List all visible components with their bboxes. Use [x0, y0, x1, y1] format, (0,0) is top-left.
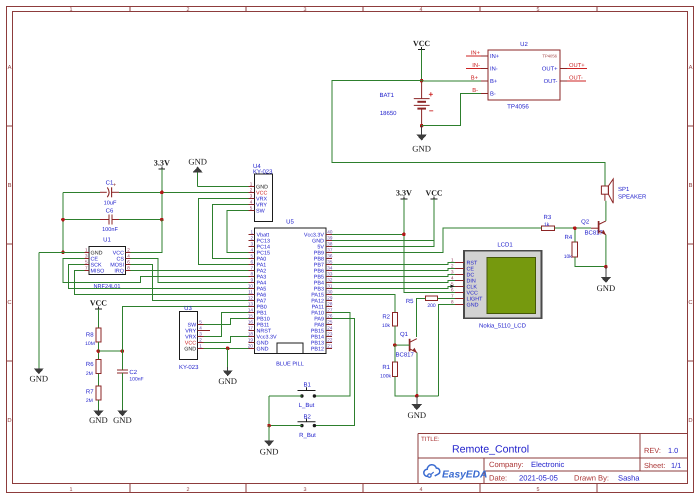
resistor R5 [406, 296, 438, 309]
svg-text:10k: 10k [564, 254, 573, 260]
svg-text:1k: 1k [544, 222, 550, 228]
resistor R7 [86, 386, 101, 404]
svg-text:IN-: IN- [490, 67, 498, 73]
svg-text:31: 31 [327, 284, 333, 289]
svg-text:100nF: 100nF [129, 377, 143, 383]
svg-text:Electronic: Electronic [531, 460, 565, 469]
title block [418, 434, 688, 484]
svg-text:20: 20 [248, 344, 254, 349]
svg-text:U1: U1 [103, 237, 111, 244]
GND (Q1) [407, 396, 426, 420]
svg-text:6: 6 [250, 260, 253, 265]
junction C2 top [121, 349, 125, 353]
wire CE to PA3 [63, 258, 248, 282]
svg-text:16: 16 [248, 320, 254, 325]
svg-text:GND: GND [412, 143, 431, 153]
svg-text:C: C [7, 299, 11, 306]
svg-text:21: 21 [327, 344, 333, 349]
svg-text:28: 28 [327, 302, 333, 307]
svg-text:23: 23 [327, 332, 333, 337]
svg-text:R8: R8 [86, 331, 94, 338]
svg-text:36: 36 [327, 254, 333, 259]
junction VCC node [420, 79, 424, 83]
wire VCC to speaker [332, 81, 605, 186]
svg-text:KY-023: KY-023 [253, 169, 273, 176]
svg-text:SW: SW [256, 208, 266, 214]
wire U3 VRX to PB1 [204, 312, 249, 336]
svg-text:B2: B2 [304, 413, 312, 420]
svg-text:2: 2 [187, 487, 190, 493]
3.3V flag (above U5) [396, 189, 412, 199]
svg-text:33: 33 [327, 272, 333, 277]
svg-text:7: 7 [451, 294, 454, 299]
resistor R4 [564, 234, 578, 260]
wire B+ [422, 80, 481, 82]
capacitor C1 [100, 179, 119, 206]
svg-text:BAT1: BAT1 [379, 92, 394, 99]
svg-text:1: 1 [250, 230, 253, 235]
svg-text:B-: B- [490, 92, 496, 98]
svg-text:MISO: MISO [91, 268, 105, 274]
wire U1 VCC up [131, 220, 162, 253]
svg-text:OUT+: OUT+ [542, 66, 558, 73]
svg-text:VCC: VCC [413, 39, 430, 48]
svg-text:1: 1 [250, 182, 253, 187]
svg-text:BC817: BC817 [585, 230, 604, 237]
svg-text:BC817: BC817 [396, 351, 415, 358]
svg-text:1: 1 [70, 487, 73, 493]
wire [421, 50, 423, 81]
svg-text:D: D [688, 418, 692, 424]
junction emitter/GND [604, 265, 608, 269]
svg-text:GND: GND [597, 283, 616, 293]
svg-text:GND: GND [29, 373, 48, 383]
svg-text:3.3V: 3.3V [154, 159, 170, 168]
svg-text:R7: R7 [86, 388, 94, 395]
wire B2 left [269, 425, 302, 427]
wire buttons gnd down [268, 426, 270, 440]
wire VCC to 5V pin [332, 199, 434, 246]
module U3 KY-023 [179, 305, 204, 371]
svg-text:KY-023: KY-023 [179, 364, 199, 371]
svg-text:EasyEDA: EasyEDA [442, 469, 487, 480]
svg-text:B: B [689, 183, 693, 189]
svg-text:26: 26 [327, 314, 333, 319]
wire PB9 to R3 [332, 228, 542, 252]
svg-text:2: 2 [250, 188, 253, 193]
svg-text:2: 2 [199, 338, 202, 343]
svg-text:A: A [8, 65, 12, 71]
resistor R8 [85, 328, 101, 347]
svg-text:1: 1 [199, 344, 202, 349]
ic U1 NRF24L01 [84, 237, 130, 291]
svg-text:8: 8 [250, 272, 253, 277]
svg-text:200: 200 [427, 303, 436, 309]
svg-text:R6: R6 [86, 361, 94, 368]
svg-text:LCD1: LCD1 [497, 242, 513, 249]
junction 3.3V row40 [402, 233, 406, 237]
VCC flag (above U5 right) [426, 189, 443, 199]
svg-text:Q2: Q2 [581, 219, 590, 226]
net label IN- [466, 63, 481, 69]
net label OUT+ [567, 62, 587, 69]
svg-text:GND: GND [188, 156, 207, 166]
wire C6 left [63, 219, 100, 221]
junction U1 gnd row [61, 251, 65, 255]
VCC flag (battery) [413, 39, 430, 49]
svg-text:BLUE PILL: BLUE PILL [276, 362, 304, 368]
svg-text:5: 5 [537, 7, 540, 13]
svg-text:10: 10 [248, 284, 254, 289]
svg-text:C2: C2 [129, 369, 137, 376]
capacitor C6 [100, 208, 119, 234]
junction Q1 base [393, 343, 397, 347]
button B2 R_But [298, 413, 317, 439]
svg-text:19: 19 [248, 338, 254, 343]
svg-text:10M: 10M [85, 341, 95, 347]
wire arrow CLK [450, 285, 454, 289]
wire R7 bottom [97, 400, 99, 410]
svg-text:27: 27 [327, 308, 333, 313]
svg-text:3: 3 [199, 332, 202, 337]
net label IN+ [466, 51, 481, 57]
GND (buttons) [260, 440, 279, 457]
svg-text:18650: 18650 [380, 110, 397, 117]
GND (U3) [218, 367, 237, 386]
svg-text:3.3V: 3.3V [396, 189, 412, 198]
junction C6 left [61, 218, 65, 222]
wire U5 to LCD pin 5 [332, 286, 455, 288]
svg-text:+: + [113, 183, 116, 189]
svg-text:8: 8 [127, 266, 130, 271]
svg-text:25: 25 [327, 320, 333, 325]
wire R6-R7 [97, 373, 99, 386]
svg-text:+: + [428, 90, 433, 99]
wire PA15 to R2 [332, 294, 395, 312]
wire U5 to LCD pin 2 [332, 268, 455, 270]
wire MOSI to PA7 [131, 264, 249, 300]
svg-text:R3: R3 [544, 214, 552, 221]
transistor Q1 BC817 [395, 331, 417, 358]
wire C1 left [63, 191, 100, 193]
net label B- [472, 88, 478, 94]
svg-text:34: 34 [327, 266, 333, 271]
svg-text:IN+: IN+ [490, 54, 500, 60]
svg-text:5: 5 [85, 260, 88, 265]
svg-text:13: 13 [248, 302, 254, 307]
svg-text:4: 4 [127, 254, 130, 259]
svg-text:5: 5 [199, 320, 202, 325]
svg-text:5: 5 [250, 206, 253, 211]
svg-text:R2: R2 [382, 313, 390, 320]
stub U3 VRY [204, 329, 210, 331]
svg-text:SP1: SP1 [618, 186, 630, 193]
svg-text:GND: GND [467, 302, 479, 308]
svg-text:B: B [8, 183, 12, 189]
svg-text:4: 4 [420, 7, 423, 13]
svg-text:Company:: Company: [489, 460, 524, 469]
svg-text:B+: B+ [490, 79, 498, 85]
svg-text:R_But: R_But [299, 432, 316, 439]
resistor R1 [380, 362, 397, 379]
svg-text:R1: R1 [382, 364, 390, 371]
resistor R6 [86, 359, 101, 377]
svg-text:1: 1 [70, 7, 73, 13]
svg-text:3: 3 [304, 7, 307, 13]
junction buttons gnd [267, 424, 271, 428]
svg-text:GND: GND [257, 346, 269, 352]
svg-text:2021-05-05: 2021-05-05 [519, 474, 558, 483]
junction R3/R4/base [573, 226, 577, 230]
svg-text:TP4056: TP4056 [507, 104, 529, 111]
svg-text:U3: U3 [184, 305, 192, 312]
svg-text:40: 40 [327, 230, 333, 235]
EasyEDA logo [424, 465, 488, 481]
display LCD1 Nokia_5110_LCD [451, 242, 542, 330]
svg-text:OUT-: OUT- [544, 78, 558, 85]
svg-text:OUT-: OUT- [569, 75, 583, 82]
wire left button rail [268, 396, 270, 426]
svg-text:9: 9 [250, 278, 253, 283]
wire R3 to base [555, 227, 592, 229]
speaker SP1 [601, 179, 647, 203]
svg-text:GND: GND [113, 415, 132, 425]
svg-text:17: 17 [248, 326, 254, 331]
svg-text:39: 39 [327, 236, 333, 241]
ic U2 TP4056 [481, 41, 567, 111]
wire U5 to LCD pin 4 [332, 280, 455, 282]
resistor R3 [542, 214, 555, 230]
svg-text:7: 7 [85, 266, 88, 271]
svg-text:11: 11 [248, 290, 253, 295]
svg-text:SPEAKER: SPEAKER [618, 194, 647, 201]
wire U3 SW to PB10 [204, 318, 249, 324]
net label OUT- [567, 75, 586, 82]
svg-text:6: 6 [127, 260, 130, 265]
svg-text:4: 4 [420, 487, 423, 493]
resistor R2 [382, 312, 398, 329]
GND (R7) [89, 410, 108, 425]
svg-text:2: 2 [451, 264, 454, 269]
svg-text:GND: GND [260, 447, 279, 457]
transistor Q2 BC817 [581, 201, 606, 267]
svg-text:GND: GND [184, 346, 196, 352]
svg-text:4: 4 [250, 200, 253, 205]
svg-text:GND: GND [218, 376, 237, 386]
svg-text:5: 5 [537, 487, 540, 493]
battery BAT1 [379, 81, 433, 126]
svg-text:R5: R5 [406, 298, 414, 305]
svg-text:35: 35 [327, 260, 333, 265]
svg-text:3: 3 [250, 242, 253, 247]
junction C1 right / 3.3V [160, 191, 164, 195]
wire R1 top [394, 345, 396, 362]
svg-text:Q1: Q1 [400, 331, 409, 338]
wire R2 bottom [394, 326, 396, 345]
svg-text:PB12: PB12 [311, 346, 324, 352]
junction U3 gnd [226, 347, 230, 351]
wire VCC to R8 [97, 309, 99, 328]
GND (battery) [412, 126, 431, 154]
wire row40 [332, 233, 404, 235]
wire U4 VRX to PA1 [198, 198, 248, 264]
svg-text:GND: GND [407, 410, 426, 420]
wire R5 left to Q1 collector [417, 298, 426, 337]
junction divider [97, 349, 101, 353]
wire R5 right to LIGHT [438, 297, 455, 299]
svg-text:24: 24 [327, 326, 333, 331]
wire U5 to LCD pin 3 [332, 274, 455, 276]
wire Q1 emitter down [416, 353, 418, 396]
svg-text:100k: 100k [380, 374, 391, 380]
svg-text:C: C [688, 299, 692, 306]
svg-text:1: 1 [85, 248, 88, 253]
svg-text:R4: R4 [565, 234, 573, 241]
svg-text:2: 2 [127, 248, 130, 253]
svg-text:29: 29 [327, 296, 333, 301]
svg-text:3: 3 [451, 270, 454, 275]
svg-text:10uF: 10uF [104, 200, 117, 206]
wire CS to PA4 [131, 258, 249, 282]
wire left GND drop [38, 252, 40, 368]
svg-text:C6: C6 [106, 208, 114, 215]
junction Q1 gnd [415, 394, 419, 398]
junction C6 right [160, 218, 164, 222]
net label B+ [471, 76, 479, 82]
svg-text:38: 38 [327, 242, 333, 247]
svg-text:NRF24L01: NRF24L01 [93, 284, 120, 290]
svg-text:1.0: 1.0 [668, 446, 678, 455]
svg-text:Nokia_5110_LCD: Nokia_5110_LCD [479, 323, 527, 330]
svg-text:Remote_Control: Remote_Control [452, 444, 529, 456]
svg-text:GND: GND [89, 415, 108, 425]
svg-text:5: 5 [250, 254, 253, 259]
svg-text:18: 18 [248, 332, 254, 337]
wire U3 GND to pin20 [204, 347, 249, 349]
svg-text:2: 2 [250, 236, 253, 241]
svg-text:32: 32 [327, 278, 333, 283]
svg-text:4: 4 [250, 248, 253, 253]
wire SCK to PA5 [69, 264, 249, 288]
svg-text:3: 3 [85, 254, 88, 259]
svg-text:37: 37 [327, 248, 333, 253]
wire U3 gnd down [227, 348, 229, 367]
svg-text:6: 6 [451, 288, 454, 293]
wire C1 right to 3.3V rail and U4 VCC [119, 191, 249, 193]
svg-text:Drawn By:: Drawn By: [574, 474, 609, 483]
wire 3.3V rail vertical [161, 169, 163, 252]
svg-text:2M: 2M [86, 398, 93, 404]
VCC flag (divider) [90, 299, 107, 309]
wire MISO to PA6 [75, 270, 249, 294]
wire GND to U4 pin1 [198, 185, 249, 187]
wire R4 top [574, 228, 576, 242]
svg-text:TP4056: TP4056 [542, 54, 557, 59]
mcu U5 BLUE PILL [248, 219, 333, 368]
GND (left) [29, 368, 48, 383]
capacitor C2 [117, 351, 144, 410]
wire U5 to LCD pin 1 [332, 262, 455, 264]
svg-text:VCC: VCC [90, 299, 107, 308]
svg-text:B1: B1 [304, 382, 312, 389]
wire R1 bottom / gnd row [395, 377, 439, 396]
svg-text:TITLE:: TITLE: [421, 436, 440, 443]
wire LCD GND down [439, 304, 456, 396]
wire U4 SW to PC15 [227, 210, 249, 252]
wire U1 GND to left [63, 251, 84, 253]
svg-text:1: 1 [451, 258, 454, 263]
svg-text:VCC: VCC [426, 189, 443, 198]
wire PA9 to B2 [314, 318, 354, 425]
svg-text:1/1: 1/1 [671, 461, 681, 470]
svg-text:15: 15 [248, 314, 254, 319]
svg-text:A: A [689, 65, 693, 71]
svg-text:3: 3 [304, 487, 307, 493]
svg-text:30: 30 [327, 290, 333, 295]
wire C6 right [119, 219, 162, 221]
svg-text:OUT+: OUT+ [569, 62, 585, 69]
svg-text:U5: U5 [286, 219, 294, 226]
svg-text:IRQ: IRQ [114, 268, 124, 274]
3.3V flag (left) [154, 159, 170, 169]
module U4 KY-023 [249, 163, 274, 222]
svg-text:2: 2 [187, 7, 190, 13]
svg-text:10k: 10k [382, 323, 391, 329]
wire divider to C2 [98, 350, 122, 352]
svg-text:L_But: L_But [299, 402, 315, 409]
svg-text:100nF: 100nF [102, 227, 118, 233]
svg-text:12: 12 [248, 296, 254, 301]
svg-text:U2: U2 [520, 41, 528, 48]
svg-text:4: 4 [199, 326, 202, 331]
GND (Q2) [597, 267, 616, 293]
wire B- [422, 94, 481, 126]
svg-text:2M: 2M [86, 371, 93, 377]
wire U3 VCC to Vcc3.3V [204, 336, 249, 342]
GND flag (above U4) [188, 156, 207, 172]
svg-text:3: 3 [250, 194, 253, 199]
svg-text:Sasha: Sasha [618, 474, 640, 483]
svg-text:22: 22 [327, 338, 333, 343]
wire left gnd rail [62, 192, 64, 252]
svg-text:REV:: REV: [644, 446, 661, 455]
svg-text:7: 7 [250, 266, 253, 271]
GND (C2) [113, 410, 132, 425]
wire U4 VRY to PA0 [212, 204, 248, 258]
junction battery minus node [420, 124, 424, 128]
svg-text:−: − [429, 107, 434, 116]
svg-text:Sheet:: Sheet: [644, 461, 665, 470]
wire 3.3V down to row40 and LCD VCC [404, 199, 455, 292]
svg-text:14: 14 [248, 308, 254, 313]
svg-text:D: D [7, 418, 11, 424]
wire R4 bottom [575, 257, 606, 267]
svg-text:4: 4 [451, 276, 454, 281]
svg-text:Date:: Date: [489, 474, 507, 483]
wire IRQ to PA2 [131, 269, 249, 271]
wire R8 bottom [97, 342, 99, 360]
svg-text:8: 8 [451, 300, 454, 305]
wire PA10 to B1 [314, 312, 350, 396]
button B1 L_But [298, 382, 317, 409]
wire row39 [332, 239, 434, 241]
wire divider to PB0 [122, 306, 248, 351]
wire B1 left [269, 395, 302, 397]
